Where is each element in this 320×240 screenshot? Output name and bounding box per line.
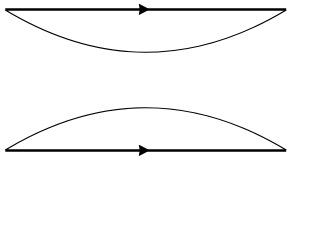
top sagging arc (5, 10, 286, 52)
bottom horizontal vector line (5, 149, 286, 152)
bottom bulging arc (5, 108, 286, 150)
top horizontal vector line (5, 8, 286, 11)
bottom vector arrowhead (139, 145, 149, 155)
top vector arrowhead (139, 4, 149, 14)
